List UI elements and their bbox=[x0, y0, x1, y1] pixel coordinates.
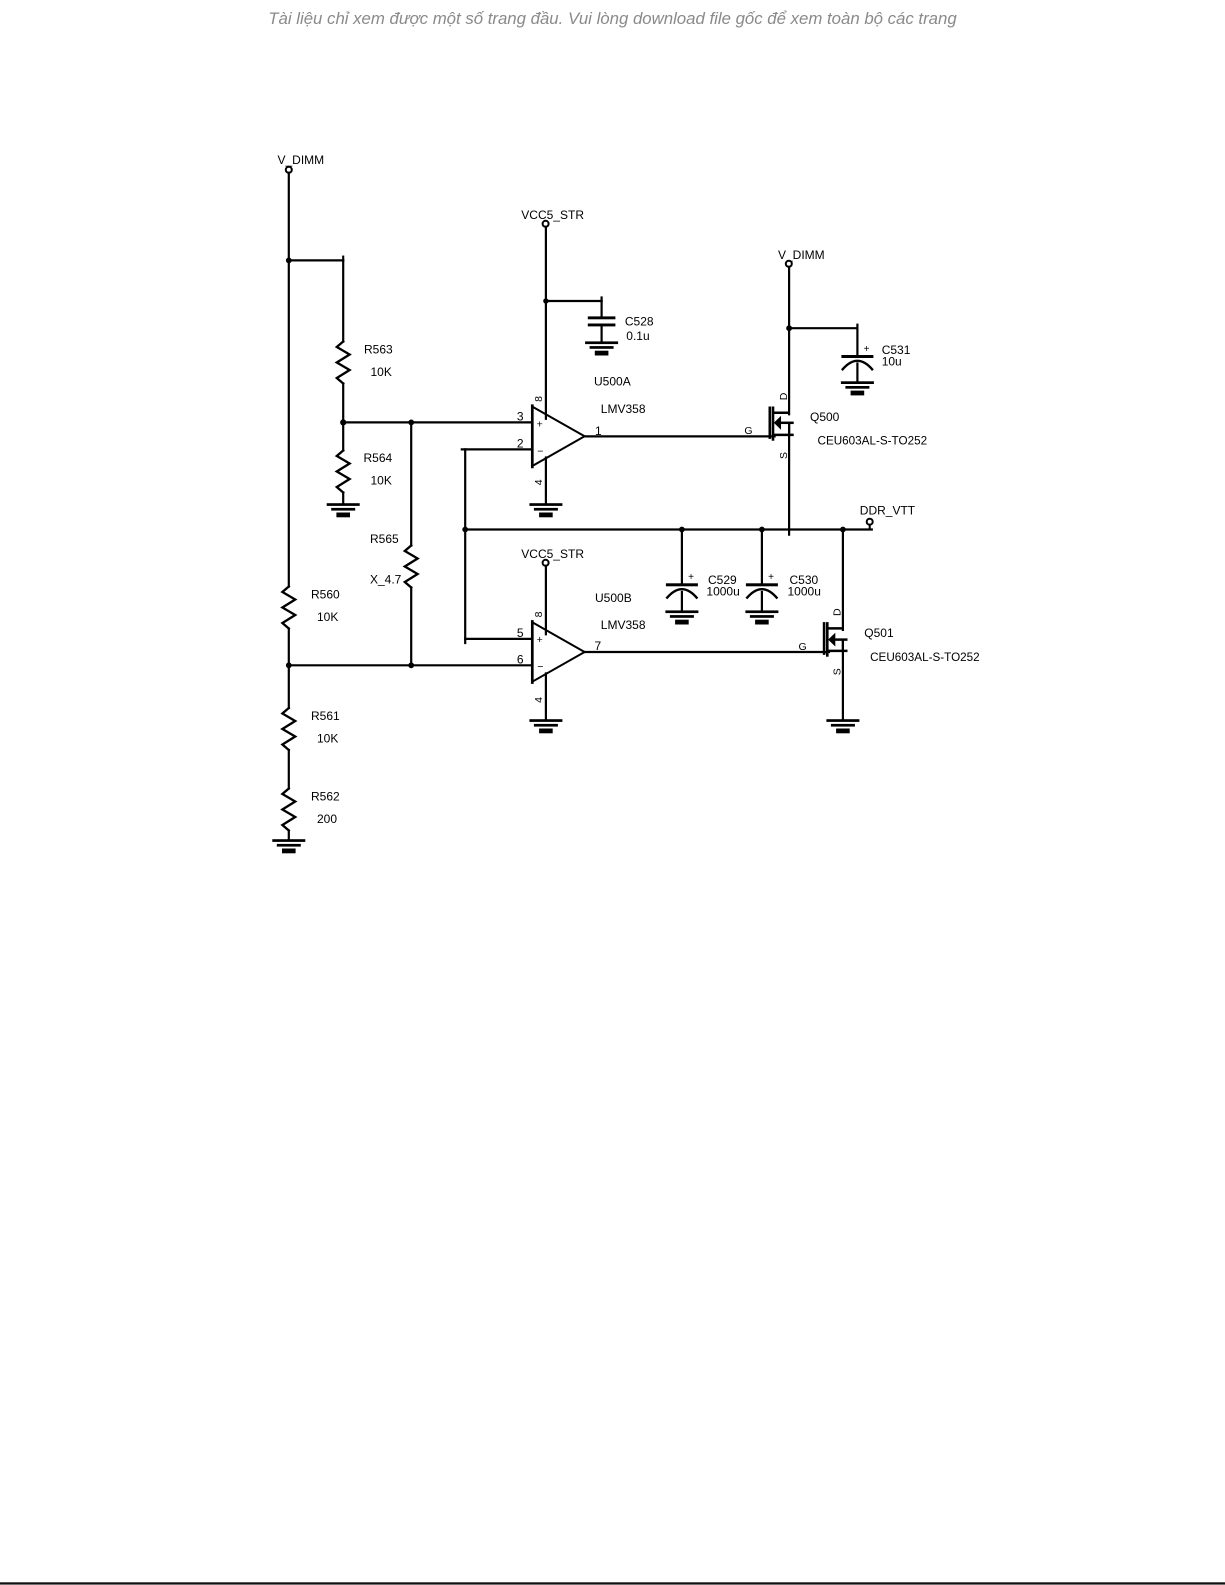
capacitor C529 bbox=[666, 572, 698, 598]
wire branch to R563 bbox=[289, 257, 343, 342]
pin name D of Q500 (rotated) bbox=[778, 392, 790, 400]
label R563 bbox=[364, 343, 393, 357]
wire R564 to ground bbox=[342, 422, 344, 502]
svg-text:3: 3 bbox=[517, 410, 524, 424]
svg-text:D: D bbox=[778, 392, 790, 400]
svg-text:VCC5_STR: VCC5_STR bbox=[521, 547, 584, 561]
junction dot Q501 drain at bus bbox=[840, 527, 846, 533]
svg-text:V_DIMM: V_DIMM bbox=[278, 153, 325, 167]
wire branch to C531 bbox=[789, 325, 857, 356]
svg-text:CEU603AL-S-TO252: CEU603AL-S-TO252 bbox=[818, 435, 928, 448]
wire bus to C529 bbox=[681, 530, 683, 584]
wire DDR_VTT bus bbox=[465, 528, 872, 530]
resistor R565 bbox=[405, 546, 418, 588]
transistor Q500 bbox=[770, 407, 794, 441]
ground below U500A bbox=[529, 503, 562, 517]
wire op-amp U500A pin 4 to ground bbox=[545, 458, 547, 503]
svg-text:S: S bbox=[831, 668, 843, 675]
resistor R561 bbox=[282, 708, 295, 750]
capacitor C530 bbox=[746, 572, 778, 598]
resistor R564 bbox=[337, 451, 350, 493]
ground below R562 bbox=[272, 839, 305, 853]
power terminal V_DIMM (left) bbox=[278, 153, 325, 173]
wire node A down to R565 bbox=[410, 422, 412, 545]
wire C531 to ground bbox=[856, 364, 858, 382]
junction dot R565 bottom bbox=[408, 662, 414, 668]
capacitor C528 bbox=[588, 316, 616, 326]
svg-text:Tài liệu chỉ xem được một số t: Tài liệu chỉ xem được một số trang đầu. … bbox=[268, 9, 957, 28]
svg-text:4: 4 bbox=[533, 697, 545, 703]
svg-text:R560: R560 bbox=[311, 588, 340, 602]
wire bus to C530 bbox=[761, 530, 763, 584]
junction dot R565 top bbox=[408, 420, 414, 426]
wire node A to op-amp pin 3 bbox=[343, 421, 532, 423]
label U500B bbox=[595, 591, 632, 605]
svg-text:U500B: U500B bbox=[595, 591, 632, 605]
pin number 8 of U500B (rotated) bbox=[533, 611, 545, 617]
op-amp U500A plus marker bbox=[537, 418, 543, 430]
wire branch to C528 bbox=[546, 298, 602, 317]
svg-text:10K: 10K bbox=[317, 732, 338, 746]
ground below R564 bbox=[327, 503, 360, 517]
svg-text:1000u: 1000u bbox=[706, 585, 739, 599]
label Q501 bbox=[864, 626, 894, 640]
label C529 value 1000u bbox=[706, 585, 739, 599]
junction dot bus left bbox=[462, 527, 468, 533]
pin number 3 bbox=[517, 410, 524, 424]
pin number 8 (rotated) bbox=[533, 396, 545, 402]
terminal DDR_VTT bbox=[867, 519, 873, 530]
svg-text:−: − bbox=[537, 661, 543, 673]
wire V_DIMM left rail bbox=[288, 173, 290, 587]
svg-text:4: 4 bbox=[533, 479, 545, 485]
op-amp U500A minus marker bbox=[537, 445, 543, 457]
wire R562 to ground bbox=[288, 831, 290, 839]
label R564 bbox=[364, 451, 393, 465]
power terminal VCC5_STR (lower) bbox=[521, 547, 584, 566]
svg-text:LMV358: LMV358 bbox=[601, 402, 646, 416]
svg-text:LMV358: LMV358 bbox=[601, 618, 646, 632]
svg-text:R561: R561 bbox=[311, 709, 340, 723]
svg-text:R562: R562 bbox=[311, 790, 340, 804]
svg-text:Q500: Q500 bbox=[810, 410, 840, 424]
svg-text:R564: R564 bbox=[364, 451, 393, 465]
svg-text:10K: 10K bbox=[317, 610, 338, 624]
ground below Q501 bbox=[826, 719, 859, 733]
label Q500 bbox=[810, 410, 840, 424]
svg-text:R565: R565 bbox=[370, 532, 399, 546]
wire VCC5_STR to op-amp U500B pin 8 bbox=[545, 566, 547, 635]
svg-text:8: 8 bbox=[533, 611, 545, 617]
label LMV358 (U500A) bbox=[601, 402, 646, 416]
svg-text:+: + bbox=[768, 572, 774, 583]
svg-text:−: − bbox=[537, 445, 543, 457]
page bottom border line bbox=[0, 1582, 1225, 1584]
label Q500 part CEU603AL-S-TO252 bbox=[818, 435, 928, 448]
label Q501 part CEU603AL-S-TO252 bbox=[870, 651, 980, 664]
label C531 value 10u bbox=[882, 354, 902, 368]
label C530 value 1000u bbox=[788, 585, 821, 599]
junction dot C529 bbox=[679, 527, 685, 533]
label C529 bbox=[708, 573, 737, 587]
svg-text:6: 6 bbox=[517, 652, 524, 666]
wire op-amp U500B pin 4 to ground bbox=[545, 673, 547, 718]
label R561 value 10K bbox=[317, 732, 338, 746]
pin number 5 bbox=[517, 626, 524, 640]
svg-text:200: 200 bbox=[317, 812, 337, 826]
svg-text:R563: R563 bbox=[364, 343, 393, 357]
power terminal V_DIMM (right) bbox=[778, 248, 825, 267]
op-amp U500B plus marker bbox=[537, 634, 543, 646]
pin number 4 of U500B (rotated) bbox=[533, 697, 545, 703]
label R562 bbox=[311, 790, 340, 804]
junction dot C528 branch bbox=[543, 298, 548, 303]
svg-text:+: + bbox=[688, 572, 694, 583]
svg-text:5: 5 bbox=[517, 626, 524, 640]
pin name S of Q500 (rotated) bbox=[778, 452, 790, 459]
junction dot node B bbox=[286, 662, 292, 668]
wire bus to Q501 drain bbox=[842, 530, 844, 630]
wire R565 to node B bbox=[410, 588, 412, 666]
ground below C529 bbox=[665, 610, 698, 624]
wire VCC5_STR to op-amp U500A pin 8 bbox=[545, 227, 547, 419]
junction dot C530 bbox=[759, 527, 765, 533]
junction dot at V_DIMM / R563 branch bbox=[286, 258, 292, 264]
svg-text:VCC5_STR: VCC5_STR bbox=[521, 208, 584, 222]
op-amp U500A body bbox=[532, 404, 584, 468]
label U500A bbox=[594, 375, 631, 389]
pin number 1 bbox=[595, 424, 602, 438]
resistor R560 bbox=[282, 587, 295, 629]
ground below C528 bbox=[585, 341, 618, 355]
svg-text:+: + bbox=[537, 634, 543, 646]
svg-text:CEU603AL-S-TO252: CEU603AL-S-TO252 bbox=[870, 651, 980, 664]
ground below C530 bbox=[745, 610, 778, 624]
power terminal VCC5_STR (upper) bbox=[521, 208, 584, 227]
svg-text:C528: C528 bbox=[625, 315, 654, 329]
svg-text:+: + bbox=[864, 344, 870, 355]
pin name G of Q501 bbox=[799, 641, 807, 653]
resistor R563 bbox=[337, 342, 350, 384]
pin number 2 bbox=[517, 436, 524, 450]
label DDR_VTT bbox=[860, 504, 916, 518]
wire C528 to ground bbox=[600, 326, 602, 341]
wire bus down to op-amp U500B pin 5 bbox=[465, 530, 532, 644]
wire op-amp U500A output to Q500 gate bbox=[585, 435, 775, 437]
label C530 bbox=[790, 573, 819, 587]
svg-text:1000u: 1000u bbox=[788, 585, 821, 599]
svg-text:10K: 10K bbox=[371, 365, 392, 379]
svg-text:D: D bbox=[831, 608, 843, 616]
wire C530 to ground bbox=[761, 592, 763, 610]
label LMV358 (U500B) bbox=[601, 618, 646, 632]
label C531 bbox=[882, 343, 911, 357]
svg-text:V_DIMM: V_DIMM bbox=[778, 248, 825, 262]
header notice text bbox=[268, 9, 957, 28]
pin name D of Q501 (rotated) bbox=[831, 608, 843, 616]
wire node B to op-amp pin 6 bbox=[289, 664, 533, 666]
svg-text:10u: 10u bbox=[882, 354, 902, 368]
junction dot node A bbox=[340, 419, 346, 425]
capacitor C531 bbox=[841, 344, 873, 370]
wire V_DIMM to Q500 drain bbox=[788, 267, 790, 415]
transistor Q501 bbox=[824, 622, 847, 657]
svg-text:Q501: Q501 bbox=[864, 626, 894, 640]
svg-text:G: G bbox=[744, 425, 752, 437]
wire R561 to R562 bbox=[288, 750, 290, 789]
label R563 value 10K bbox=[371, 365, 392, 379]
op-amp U500B minus marker bbox=[537, 661, 543, 673]
svg-text:U500A: U500A bbox=[594, 375, 631, 389]
svg-text:0.1u: 0.1u bbox=[626, 329, 649, 343]
wire node B down to R561 bbox=[288, 665, 290, 708]
label C528 bbox=[625, 315, 654, 329]
label R562 value 200 bbox=[317, 812, 337, 826]
pin number 6 bbox=[517, 652, 524, 666]
wire R560 to node B bbox=[288, 629, 290, 666]
label R564 value 10K bbox=[371, 474, 392, 488]
wire Q500 source to bus bbox=[788, 423, 790, 535]
wire Q501 source to ground bbox=[842, 640, 844, 719]
wire op-amp U500B output to Q501 gate bbox=[585, 651, 829, 653]
pin number 7 bbox=[595, 639, 602, 653]
resistor R562 bbox=[282, 789, 295, 831]
label R565 value X_4.7 bbox=[370, 573, 402, 587]
ground below C531 bbox=[841, 381, 874, 395]
label R565 bbox=[370, 532, 399, 546]
label C528 value 0.1u bbox=[626, 329, 649, 343]
svg-text:10K: 10K bbox=[371, 474, 392, 488]
label R561 bbox=[311, 709, 340, 723]
wire C529 to ground bbox=[681, 592, 683, 610]
pin name G of Q500 bbox=[744, 425, 752, 437]
svg-text:G: G bbox=[799, 641, 807, 653]
svg-text:X_4.7: X_4.7 bbox=[370, 573, 402, 587]
op-amp U500B body bbox=[532, 620, 584, 684]
ground below U500B bbox=[529, 719, 562, 733]
pin number 4 (rotated) bbox=[533, 479, 545, 485]
pin name S of Q501 (rotated) bbox=[831, 668, 843, 675]
junction dot C531 branch bbox=[786, 325, 792, 331]
svg-text:+: + bbox=[537, 418, 543, 430]
wire pin 2 feedback bbox=[462, 449, 533, 529]
label R560 bbox=[311, 588, 340, 602]
wire R563 to node A bbox=[342, 384, 344, 423]
label R560 value 10K bbox=[317, 610, 338, 624]
svg-text:8: 8 bbox=[533, 396, 545, 402]
svg-text:DDR_VTT: DDR_VTT bbox=[860, 504, 916, 518]
